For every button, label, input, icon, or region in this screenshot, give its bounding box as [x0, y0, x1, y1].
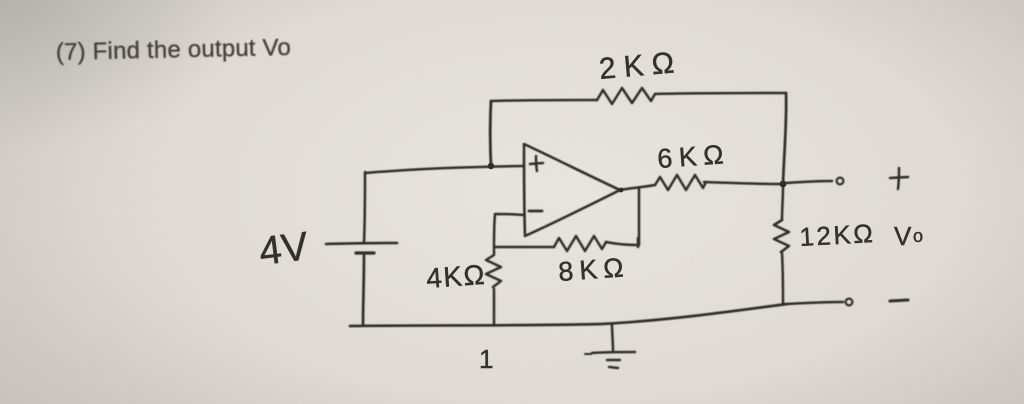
svg-text:(7) Find the output Vo: (7) Find the output Vo	[56, 34, 292, 66]
wire: op-amp output to 6k	[620, 185, 655, 190]
resistor R 6k zigzag	[655, 175, 706, 190]
wire: 8k right segment	[606, 242, 638, 245]
terminal minus sign	[890, 300, 908, 301]
wire: 8k left segment	[494, 246, 554, 249]
op-amp plus input mark	[530, 156, 543, 171]
op-amp minus input mark	[529, 210, 542, 213]
wire: 12k bottom stub	[782, 253, 783, 304]
terminal circle +	[837, 178, 844, 185]
wire: inverting input stub	[494, 214, 524, 247]
svg-text:V: V	[894, 221, 912, 251]
battery B1 top plate	[326, 243, 397, 244]
wire: feedback top horizontal right segment	[655, 93, 786, 94]
terminal plus sign	[890, 168, 908, 189]
wire: battery bottom vertical	[363, 255, 364, 325]
svg-text:4V: 4V	[257, 224, 311, 274]
svg-text:1: 1	[479, 344, 493, 374]
node A dot (+ input)	[488, 163, 494, 169]
ground symbol	[612, 324, 613, 351]
wire: feedback top-left vertical (node A to top)	[489, 101, 493, 166]
resistor R 4k: zigzag vertical	[486, 249, 501, 287]
wire: output feedback vertical	[638, 188, 639, 247]
resistor R 12k vertical: top stub	[782, 187, 783, 220]
svg-text:8KΩ: 8KΩ	[557, 252, 630, 287]
node: output node dot	[780, 181, 787, 188]
terminal circle -	[846, 299, 853, 306]
wire: bottom rail to - terminal	[787, 302, 843, 304]
wire: battery top vertical	[364, 172, 365, 243]
resistor R 8k zigzag	[554, 236, 606, 251]
battery B1 bottom plate	[356, 251, 374, 254]
wire: 4k bottom stub	[493, 289, 496, 324]
wire: 6k to output node	[704, 182, 783, 184]
wire: + input horizontal from battery to op-amp	[365, 166, 524, 173]
resistor R feedback 2k zigzag	[597, 88, 655, 104]
wire: feedback top-right vertical down to output node	[783, 93, 786, 184]
node: output node to + terminal wire	[786, 181, 832, 183]
svg-text:o: o	[913, 226, 923, 246]
svg-text:4KΩ: 4KΩ	[425, 259, 487, 294]
resistor R 12k zigzag	[774, 220, 789, 252]
wire: bottom rail	[350, 304, 787, 326]
op-amp U1 triangle	[524, 144, 620, 236]
wire: feedback top horizontal left segment	[491, 100, 597, 101]
node: apex dot	[619, 188, 624, 193]
svg-text:12KΩ: 12KΩ	[799, 218, 876, 252]
svg-text:6KΩ: 6KΩ	[656, 139, 731, 174]
